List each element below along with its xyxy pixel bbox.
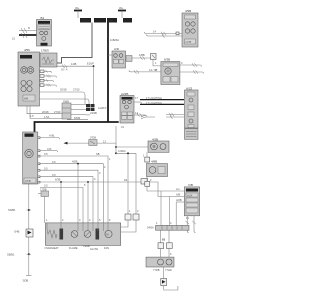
fuse square right of heater 1 bbox=[121, 214, 131, 227]
svg-text:V/B: V/B bbox=[188, 183, 193, 187]
svg-text:6/3B: 6/3B bbox=[55, 178, 61, 182]
svg-text:0.5: 0.5 bbox=[52, 173, 56, 177]
wire CPM bottom to ground chain bbox=[29, 184, 49, 229]
heater overheat sensor bbox=[45, 229, 64, 251]
svg-text:30+: 30+ bbox=[119, 6, 124, 10]
svg-text:A/2B: A/2B bbox=[176, 198, 182, 202]
svg-text:4/9B: 4/9B bbox=[185, 9, 191, 13]
svg-text:SB/B1: SB/B1 bbox=[7, 253, 15, 257]
svg-text:1.5: 1.5 bbox=[30, 114, 34, 118]
bus wires lighting bbox=[140, 96, 184, 105]
svg-text:D4: D4 bbox=[124, 178, 128, 182]
svg-text:WB: WB bbox=[24, 97, 28, 101]
staircase wire 4 bbox=[40, 177, 93, 229]
fuse 30+ supply B bbox=[107, 6, 132, 23]
svg-text:AT/B: AT/B bbox=[25, 179, 31, 183]
wire E16/F from relay bbox=[57, 62, 94, 105]
wire 20/18 27/10 upper pair bbox=[40, 88, 90, 105]
svg-text:4/2B: 4/2B bbox=[152, 137, 158, 141]
svg-text:0.5: 0.5 bbox=[44, 166, 48, 170]
svg-text:4/5B: 4/5B bbox=[72, 160, 78, 164]
svg-text:20/18: 20/18 bbox=[42, 110, 49, 114]
svg-text:SB: SB bbox=[96, 152, 100, 156]
wire CPM pin3 bbox=[40, 147, 58, 152]
connector SWB bbox=[62, 100, 86, 120]
svg-text:1.5A: 1.5A bbox=[44, 115, 50, 119]
wire 11B26A thick feed bbox=[108, 23, 119, 123]
connector A/23 bottom rows bbox=[185, 129, 199, 140]
svg-text:C/7B: C/7B bbox=[186, 40, 192, 44]
connector 6-PB pair bbox=[67, 104, 107, 120]
connector strip 54/5A bbox=[147, 225, 189, 230]
svg-text:GLOW: GLOW bbox=[90, 247, 98, 251]
valve 4/8B bbox=[147, 160, 168, 182]
long wire to V/B bbox=[40, 178, 184, 230]
svg-text:27/10: 27/10 bbox=[73, 88, 80, 92]
wires CEM bottom to SWB bbox=[27, 106, 62, 119]
svg-text:SD/B1: SD/B1 bbox=[8, 208, 16, 212]
svg-text:3/DB: 3/DB bbox=[23, 279, 29, 283]
svg-text:E16/F: E16/F bbox=[87, 62, 94, 66]
svg-text:30+: 30+ bbox=[75, 6, 80, 10]
heater fan motor bbox=[104, 230, 112, 250]
svg-text:GY: 4: GY: 4 bbox=[61, 68, 68, 72]
svg-text:AUX: AUX bbox=[187, 193, 193, 197]
svg-text:M: M bbox=[106, 233, 108, 237]
connector block 77DB 77HD bbox=[146, 257, 174, 272]
svg-text:FLAME: FLAME bbox=[69, 246, 78, 250]
svg-text:A/D: A/D bbox=[114, 47, 120, 51]
svg-text:24/2B: 24/2B bbox=[90, 111, 97, 115]
svg-text:20/18: 20/18 bbox=[60, 88, 67, 92]
fuse 30+ supply A bbox=[74, 6, 106, 23]
connector square mid right bbox=[132, 53, 161, 66]
svg-text:77HD: 77HD bbox=[165, 268, 172, 272]
svg-text:A23B: A23B bbox=[121, 92, 128, 96]
staircase wire 1 bbox=[40, 156, 108, 229]
node C/3DA junction bbox=[115, 126, 148, 154]
svg-text:4/8B: 4/8B bbox=[151, 160, 157, 164]
wire A23B pin right lower bbox=[134, 113, 147, 117]
ignition switch B1 bbox=[37, 16, 52, 46]
staircase wire 3 bbox=[40, 170, 98, 229]
svg-text:6/3B: 6/3B bbox=[164, 58, 170, 62]
node SB/B1 bbox=[7, 253, 31, 276]
wire branch to fuses 128 136 bbox=[127, 152, 136, 214]
relay 17B/5 inside CEM bbox=[40, 49, 57, 68]
svg-text:17DB: 17DB bbox=[90, 136, 97, 140]
svg-text:OVERHEAT: OVERHEAT bbox=[45, 246, 59, 250]
svg-text:4-HB.P: 4-HB.P bbox=[98, 106, 107, 110]
svg-text:17 LIGHTING: 17 LIGHTING bbox=[146, 101, 162, 105]
svg-text:A-BL: A-BL bbox=[49, 134, 55, 138]
wire A23B pin right upper bbox=[134, 102, 142, 104]
power box 4/9B top right bbox=[182, 9, 198, 47]
wire gauge labels bbox=[30, 61, 189, 256]
node SD/B1 bbox=[8, 208, 31, 212]
svg-text:0.5: 0.5 bbox=[44, 184, 48, 188]
svg-text:A/B: A/B bbox=[176, 193, 180, 197]
svg-text:17B/5: 17B/5 bbox=[41, 49, 49, 53]
ground 3/DB bbox=[23, 276, 32, 283]
svg-text:A-L: A-L bbox=[176, 187, 181, 191]
CPM control module bbox=[23, 132, 40, 184]
wire CPM pin1 bbox=[40, 134, 60, 139]
heater motor 6/3B bbox=[161, 58, 180, 85]
wire from fuse A down to relay bbox=[57, 23, 92, 64]
V/B control unit bbox=[184, 183, 199, 216]
fuse square bottom 1 bbox=[158, 243, 164, 257]
svg-text:R: R bbox=[28, 26, 30, 30]
wires V/B left pins bbox=[161, 187, 184, 225]
fuse square bottom 2 bbox=[167, 243, 173, 257]
connector A/23 column bbox=[185, 87, 199, 129]
connector E4B bbox=[15, 229, 34, 254]
svg-text:11B5: 11B5 bbox=[108, 20, 114, 23]
wires motor right bbox=[180, 63, 204, 74]
svg-text:11B26A: 11B26A bbox=[110, 38, 119, 42]
svg-text:E4B: E4B bbox=[15, 229, 20, 233]
heater unit box bbox=[45, 223, 120, 246]
fuse square right of heater 2 bbox=[121, 214, 139, 232]
relay A/D bbox=[108, 47, 132, 68]
CEM 4/56 bbox=[18, 48, 40, 106]
pump 4/2B bbox=[147, 137, 169, 157]
svg-text:0.5: 0.5 bbox=[52, 160, 56, 164]
thick bus to CPM bbox=[35, 122, 119, 132]
connector square F bbox=[145, 157, 150, 164]
svg-text:14/B: 14/B bbox=[71, 62, 77, 66]
heater glow plug bbox=[96, 229, 100, 240]
wire arrow to pump relay C/DB bbox=[64, 136, 117, 146]
svg-text:27/10: 27/10 bbox=[54, 110, 61, 114]
V/B bottom legs bbox=[186, 216, 196, 233]
svg-text:54/5A: 54/5A bbox=[147, 226, 154, 230]
svg-text:11B30A: 11B30A bbox=[81, 20, 90, 23]
svg-text:17 LIGHTING: 17 LIGHTING bbox=[146, 96, 162, 100]
svg-text:6/DM: 6/DM bbox=[74, 116, 80, 120]
wire into motor lower left bbox=[129, 68, 161, 74]
wires into 4/9B bbox=[145, 30, 183, 38]
heater flame sensor bbox=[69, 231, 78, 250]
svg-text:4/56: 4/56 bbox=[24, 48, 30, 52]
svg-text:0.5: 0.5 bbox=[44, 152, 48, 156]
ground connector bottom bbox=[161, 267, 178, 290]
wires into connector right with shield bbox=[141, 113, 184, 119]
heater temp sensor bbox=[83, 231, 98, 251]
wires below strip bbox=[161, 230, 170, 243]
svg-text:C/S: C/S bbox=[47, 147, 52, 151]
CEM internal fuse pins bbox=[40, 70, 57, 87]
svg-text:17DB: 17DB bbox=[40, 187, 47, 191]
svg-text:C/3DA: C/3DA bbox=[118, 149, 126, 153]
svg-text:77DB: 77DB bbox=[153, 268, 160, 272]
heater internal wires bbox=[47, 223, 108, 231]
wire battery feed to ignition switch bbox=[12, 26, 37, 41]
staircase wire 6 bbox=[40, 188, 83, 230]
connector A23B bbox=[120, 92, 134, 123]
staircase wire 2 bbox=[40, 160, 103, 230]
svg-text:FAN: FAN bbox=[104, 246, 109, 250]
connector square G bbox=[145, 181, 185, 191]
